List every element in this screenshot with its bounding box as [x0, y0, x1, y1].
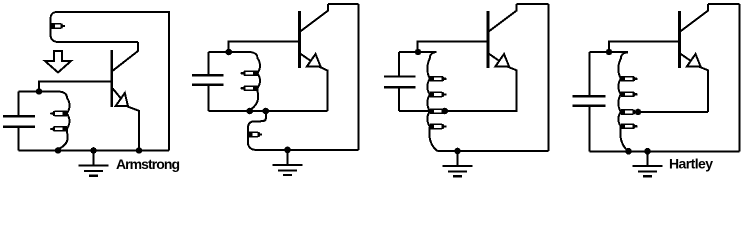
node: feedback coil junction dot [263, 108, 270, 115]
node: coil tap junction dot [635, 109, 642, 116]
svg-text:Armstrong: Armstrong [116, 156, 180, 172]
ground (circuit 2) [273, 147, 303, 176]
node: coil bottom junction dot [247, 108, 254, 115]
bottom rail wire [438, 150, 549, 152]
tank top wire [18, 91, 58, 93]
top rail wire [517, 3, 549, 5]
right rail wire [168, 11, 170, 151]
tap wire (cap bottom to emitter) [399, 110, 517, 112]
svg-text:Hartley: Hartley [669, 155, 713, 171]
coupling arrow (hollow, pointing down) [45, 51, 71, 73]
transistor Q2 [300, 4, 329, 111]
ground (circuit 1) [79, 147, 109, 176]
base wire Q3 [418, 42, 488, 53]
tank top wire [399, 51, 437, 53]
base wire Q1 [39, 81, 111, 91]
capacitor C1 bottom plate [3, 127, 35, 151]
node: base-tank junction dot [36, 88, 43, 95]
node: base-tank junction dot [226, 49, 233, 56]
node: base-tank junction dot [415, 49, 422, 56]
node: coil bottom junction dot [625, 148, 632, 155]
capacitor C1 top plate [3, 92, 35, 117]
right rail wire [358, 4, 360, 150]
ground (circuit 3) [443, 148, 473, 177]
tap wire (tap to emitter) [638, 111, 708, 113]
inductor L2 (tank coil, 2 turns) [50, 92, 69, 149]
base wire Q4 [609, 42, 679, 53]
capacitor C4 bottom plate [573, 106, 606, 151]
top rail wire [708, 3, 739, 5]
transistor Q4 [680, 4, 709, 112]
transistor Q1 [112, 42, 139, 151]
inductor L3 (tank coil, 2 turns) [241, 52, 260, 110]
ground (circuit 4) [633, 148, 663, 176]
capacitor C3 top plate [384, 52, 415, 77]
capacitor C3 bottom plate [384, 87, 415, 111]
bottom rail wire [590, 150, 740, 152]
node: base-tank junction dot [606, 49, 613, 56]
tickler coil L1 (horizontal single-turn loop, top) [51, 12, 170, 42]
node: emitter-rail junction dot [136, 147, 143, 154]
node: coil-rail junction dot [55, 147, 62, 154]
capacitor C2 bottom plate [192, 85, 223, 111]
right rail wire [739, 4, 741, 151]
base wire Q2 [229, 42, 299, 53]
right rail wire [547, 4, 549, 151]
node: coil tap junction dot [442, 108, 449, 115]
capacitor C2 top plate [192, 52, 223, 75]
tank top wire [590, 51, 628, 53]
inductor L6 (tank coil, 4 turns, tapped) [618, 52, 637, 151]
top rail wire [328, 3, 358, 5]
bottom rail wire [18, 150, 169, 152]
feedback coil L4 (horizontal single-turn loop) [248, 111, 359, 150]
inductor L5 (tank coil, 4 turns, tapped) [427, 52, 446, 151]
tank top wire [209, 51, 250, 53]
tank bottom wire [209, 110, 328, 112]
capacitor C4 top plate [573, 52, 606, 96]
transistor Q3 [488, 4, 517, 111]
